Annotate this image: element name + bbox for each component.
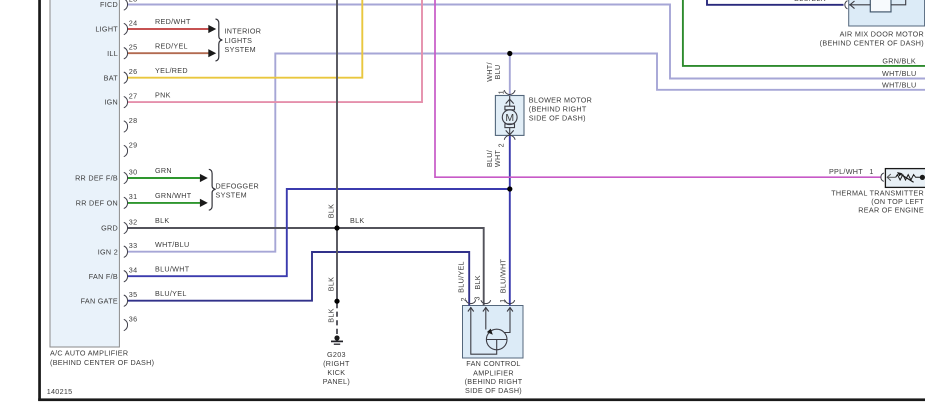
svg-text:2: 2 — [496, 143, 505, 147]
svg-text:M: M — [505, 112, 514, 124]
svg-text:36: 36 — [129, 314, 138, 323]
svg-text:BLK: BLK — [327, 204, 336, 219]
svg-text:SIDE OF DASH): SIDE OF DASH) — [529, 113, 586, 122]
svg-text:LIGHT: LIGHT — [95, 25, 118, 34]
svg-text:(BEHIND RIGHT: (BEHIND RIGHT — [465, 377, 523, 386]
svg-text:BLU/WHT: BLU/WHT — [499, 258, 508, 293]
svg-text:WHT/BLU: WHT/BLU — [882, 69, 916, 78]
svg-text:BLU/YEL: BLU/YEL — [155, 289, 187, 298]
svg-text:GRD: GRD — [101, 224, 118, 233]
svg-text:AMPLIFIER: AMPLIFIER — [473, 368, 514, 377]
svg-text:1: 1 — [496, 90, 505, 94]
svg-text:WHT/BLU: WHT/BLU — [882, 81, 916, 90]
svg-text:3: 3 — [472, 296, 481, 300]
svg-text:G203: G203 — [327, 350, 346, 359]
svg-text:BLK: BLK — [350, 216, 365, 225]
svg-text:SYSTEM: SYSTEM — [216, 191, 247, 200]
svg-text:IGN: IGN — [104, 98, 118, 107]
svg-text:31: 31 — [129, 192, 138, 201]
svg-text:DEFOGGER: DEFOGGER — [216, 182, 260, 191]
svg-text:33: 33 — [129, 241, 138, 250]
svg-text:BLU/YEL: BLU/YEL — [457, 261, 466, 293]
svg-text:(BEHIND CENTER OF DASH): (BEHIND CENTER OF DASH) — [820, 39, 924, 48]
svg-text:24: 24 — [129, 18, 138, 27]
svg-text:SYSTEM: SYSTEM — [225, 45, 256, 54]
svg-text:GRN/WHT: GRN/WHT — [155, 191, 192, 200]
svg-text:LIGHTS: LIGHTS — [225, 36, 253, 45]
svg-text:BLU: BLU — [493, 65, 502, 80]
svg-text:140215: 140215 — [47, 387, 73, 396]
svg-text:BLOWER MOTOR: BLOWER MOTOR — [529, 96, 592, 105]
svg-text:WHT: WHT — [493, 150, 502, 168]
svg-text:BLU/WHT: BLU/WHT — [155, 264, 190, 273]
svg-text:34: 34 — [129, 266, 138, 275]
svg-text:25: 25 — [129, 43, 138, 52]
svg-text:FAN GATE: FAN GATE — [81, 296, 118, 305]
svg-text:26: 26 — [129, 67, 138, 76]
svg-text:2: 2 — [459, 297, 468, 301]
svg-text:PANEL): PANEL) — [323, 377, 350, 386]
svg-text:BLK: BLK — [155, 216, 170, 225]
svg-text:FAN CONTROL: FAN CONTROL — [466, 359, 520, 368]
svg-text:BLU/BLK: BLU/BLK — [794, 0, 826, 3]
svg-text:ILL: ILL — [107, 49, 118, 58]
svg-text:RR DEF F/B: RR DEF F/B — [75, 174, 118, 183]
svg-text:YEL/RED: YEL/RED — [155, 66, 188, 75]
svg-text:FICD: FICD — [100, 0, 118, 9]
svg-text:WHT/BLU: WHT/BLU — [155, 240, 189, 249]
svg-text:1: 1 — [498, 299, 507, 303]
svg-text:PNK: PNK — [155, 90, 171, 99]
svg-text:BLK: BLK — [327, 277, 336, 292]
svg-text:FAN F/B: FAN F/B — [89, 272, 118, 281]
svg-text:35: 35 — [129, 290, 138, 299]
svg-text:KICK: KICK — [327, 368, 345, 377]
svg-text:29: 29 — [129, 140, 138, 149]
svg-text:27: 27 — [129, 91, 138, 100]
svg-text:RED/WHT: RED/WHT — [155, 17, 191, 26]
svg-text:SIDE OF DASH): SIDE OF DASH) — [465, 386, 522, 395]
svg-text:30: 30 — [129, 167, 138, 176]
svg-text:GRN/BLK: GRN/BLK — [882, 56, 916, 65]
svg-text:28: 28 — [129, 116, 138, 125]
svg-text:(RIGHT: (RIGHT — [323, 359, 350, 368]
svg-text:A/C AUTO AMPLIFIER: A/C AUTO AMPLIFIER — [50, 348, 128, 357]
svg-text:RR DEF ON: RR DEF ON — [76, 199, 118, 208]
svg-text:32: 32 — [129, 217, 138, 226]
svg-text:INTERIOR: INTERIOR — [225, 27, 262, 36]
svg-text:REAR OF ENGINE: REAR OF ENGINE — [858, 206, 924, 215]
svg-text:RED/YEL: RED/YEL — [155, 41, 188, 50]
svg-text:GRN: GRN — [155, 166, 172, 175]
svg-text:BAT: BAT — [104, 73, 119, 82]
svg-text:1: 1 — [869, 167, 873, 176]
svg-text:(BEHIND CENTER OF DASH): (BEHIND CENTER OF DASH) — [50, 358, 154, 367]
svg-text:(BEHIND RIGHT: (BEHIND RIGHT — [529, 104, 587, 113]
svg-text:AIR MIX DOOR MOTOR: AIR MIX DOOR MOTOR — [840, 30, 924, 39]
svg-text:IGN 2: IGN 2 — [98, 247, 118, 256]
svg-text:BLK: BLK — [327, 308, 336, 323]
svg-text:PPL/WHT: PPL/WHT — [829, 167, 863, 176]
svg-text:23: 23 — [129, 0, 138, 4]
svg-text:BLK: BLK — [473, 275, 482, 290]
